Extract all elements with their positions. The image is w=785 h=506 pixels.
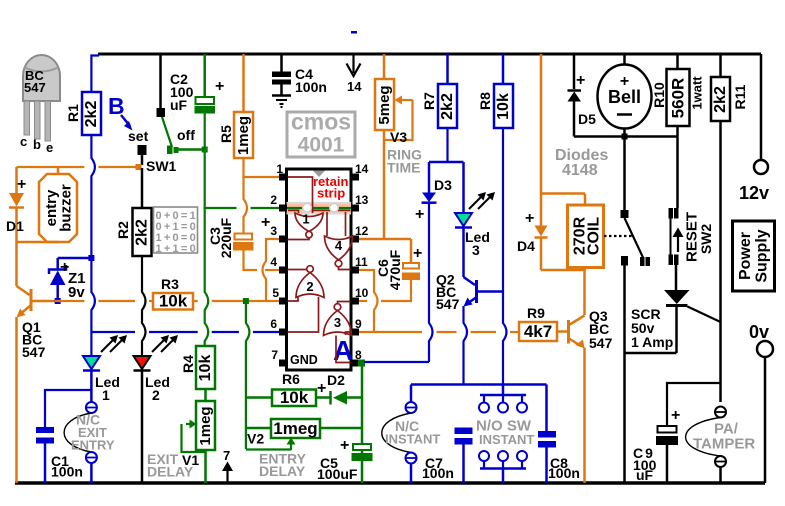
svg-text:547: 547	[24, 80, 46, 95]
pot V2 1meg	[271, 419, 320, 438]
wire C2 to rail	[203, 54, 206, 97]
led Led1	[83, 356, 100, 369]
svg-text:3: 3	[472, 242, 480, 258]
svg-text:R2: R2	[115, 221, 131, 239]
svg-text:Supply: Supply	[754, 229, 771, 282]
switch SW2 RESET	[669, 208, 674, 219]
svg-text:+: +	[415, 206, 424, 223]
svg-text:R11: R11	[732, 84, 748, 109]
svg-text:+: +	[261, 214, 270, 231]
svg-text:R3: R3	[161, 276, 179, 292]
resistor R7 2k2	[446, 54, 449, 84]
wire entry-buzzer net horizontal	[17, 166, 85, 168]
svg-text:6: 6	[270, 317, 277, 331]
transistor Q1 BC547	[30, 289, 33, 311]
wire R1 to rail	[91, 56, 99, 93]
capacitor C4 100n	[280, 54, 283, 72]
wire pin8 to D3	[358, 360, 365, 367]
svg-text:R4: R4	[180, 355, 196, 373]
node 0v terminal	[757, 341, 773, 357]
svg-text:2: 2	[152, 387, 160, 403]
bell	[623, 54, 626, 65]
svg-text:1meg: 1meg	[197, 406, 214, 445]
svg-text:10k: 10k	[280, 388, 309, 407]
resistor R4 10k	[196, 346, 215, 389]
wire pin11 to pin9 (hops pin10 row)	[359, 270, 378, 332]
switch SW1 set contact	[138, 145, 147, 155]
wire bottom 0v rail	[15, 481, 765, 485]
svg-text:547: 547	[22, 344, 46, 360]
svg-text:ENTRY: ENTRY	[71, 438, 115, 453]
wire R3 to pin5 (hops green C2 line)	[193, 300, 198, 302]
node 12v terminal	[760, 54, 763, 160]
svg-text:1watt: 1watt	[690, 76, 705, 110]
svg-text:DELAY: DELAY	[259, 463, 306, 479]
diode D5	[573, 54, 576, 89]
svg-text:547: 547	[589, 335, 613, 351]
svg-text:off: off	[177, 127, 195, 143]
svg-text:+: +	[215, 78, 224, 95]
svg-text:11: 11	[355, 255, 368, 269]
svg-text:e: e	[46, 140, 53, 155]
diode D4	[540, 194, 543, 226]
svg-text:100n: 100n	[422, 465, 454, 481]
wire V3 wiper	[400, 99, 413, 101]
relay fixed contacts	[640, 257, 645, 266]
switch N/O SW instant	[502, 385, 505, 396]
svg-text:1: 1	[302, 212, 309, 227]
svg-text:1: 1	[102, 387, 110, 403]
svg-text:3: 3	[334, 315, 341, 330]
diode D1	[15, 167, 18, 193]
wire gate net down	[719, 322, 722, 402]
gate 4 (NOR)	[325, 236, 353, 260]
wire C2 down to R4/V1	[205, 114, 209, 347]
gate 3 (NOR)	[324, 311, 352, 336]
resistor R11 2k2	[719, 54, 722, 77]
svg-text:R5: R5	[218, 125, 234, 143]
transistor package drawing BC547	[23, 55, 60, 101]
svg-text:470uF: 470uF	[387, 249, 403, 290]
wire pin5 net to R6/V2	[246, 301, 250, 449]
wire D5/Bell/R10 bottom link	[574, 135, 678, 138]
svg-text:TAMPER: TAMPER	[693, 436, 755, 453]
svg-text:Power: Power	[737, 232, 754, 280]
svg-text:3: 3	[270, 224, 277, 238]
resistor R1 2k2	[82, 92, 101, 135]
svg-text:R6: R6	[282, 371, 300, 387]
svg-text:7: 7	[223, 448, 230, 463]
svg-text:4148: 4148	[562, 162, 598, 179]
svg-text:V2: V2	[247, 431, 264, 447]
svg-text:100n: 100n	[295, 79, 327, 95]
resistor R8 10k	[502, 54, 505, 84]
svg-text:10k: 10k	[197, 355, 214, 382]
svg-text:R9: R9	[527, 305, 545, 321]
svg-text:+: +	[413, 245, 422, 262]
svg-text:12v: 12v	[739, 183, 769, 203]
relay contact pole	[621, 210, 629, 218]
svg-text:R7: R7	[421, 92, 437, 110]
svg-text:DELAY: DELAY	[147, 464, 194, 480]
retain strip graphic	[287, 202, 352, 204]
svg-text:buzzer: buzzer	[58, 184, 75, 232]
svg-text:COIL: COIL	[586, 217, 603, 255]
svg-text:4: 4	[270, 255, 277, 269]
svg-text:1 Amp: 1 Amp	[631, 334, 673, 350]
wire Led1 net to pin 6	[91, 331, 135, 333]
svg-text:b: b	[33, 137, 41, 152]
wire C6 to pin10	[381, 280, 411, 301]
pin 14 arrow from rail	[352, 54, 354, 73]
capacitor C6 470uF	[410, 239, 413, 263]
svg-text:100n: 100n	[51, 464, 83, 480]
svg-text:+: +	[17, 176, 26, 193]
svg-text:14: 14	[355, 162, 369, 176]
SCR	[664, 290, 690, 304]
switch SW1 off contact	[167, 146, 173, 155]
capacitor C3 220uF	[235, 234, 253, 240]
transistor Q3 BC547	[567, 320, 570, 344]
wire R7 to D3/Led3 tee	[446, 128, 448, 162]
svg-text:R10: R10	[651, 82, 667, 108]
switch N/C exit entry	[86, 402, 97, 413]
diode D3	[428, 162, 431, 193]
svg-text:9: 9	[355, 317, 362, 331]
cmos 4001 label box	[287, 112, 355, 157]
svg-text:Bell: Bell	[608, 87, 641, 107]
switch SW1 lever	[162, 117, 172, 147]
svg-text:uF: uF	[636, 467, 654, 483]
svg-text:R1: R1	[65, 104, 81, 122]
resistor R5 1meg	[242, 54, 245, 112]
wire buzzer bottom loop	[17, 241, 59, 244]
wire D4 from rail	[540, 54, 543, 194]
svg-text:547: 547	[436, 296, 460, 312]
switch SW1 pole wire	[159, 54, 162, 108]
arrow B to set	[121, 115, 130, 126]
svg-text:+: +	[317, 380, 326, 397]
svg-text:220uF: 220uF	[218, 217, 234, 258]
svg-text:2: 2	[306, 279, 313, 294]
svg-text:1meg: 1meg	[235, 116, 252, 155]
svg-text:2k2: 2k2	[134, 219, 151, 246]
svg-text:5: 5	[272, 286, 279, 300]
node SW1 orange junction	[136, 164, 142, 170]
wire pin2 to pin13 green link	[205, 207, 237, 209]
svg-text:4001: 4001	[298, 134, 345, 157]
svg-text:V3: V3	[390, 129, 407, 145]
svg-text:uF: uF	[170, 97, 188, 113]
svg-text:1: 1	[276, 162, 283, 176]
truth table box	[154, 207, 198, 253]
IC pins left	[279, 174, 287, 181]
wire C3 to pin4 (hops pin3-pin5 tie)	[244, 251, 258, 271]
svg-text:10: 10	[355, 286, 369, 300]
svg-text:c: c	[20, 134, 27, 149]
pot V1 1meg	[204, 389, 207, 401]
wire instant net horizontal	[411, 383, 547, 386]
svg-text:2: 2	[270, 193, 277, 207]
capacitor C9 100uF	[667, 383, 721, 426]
wire pin8 down	[361, 363, 364, 453]
wire V2 wiper	[246, 448, 291, 450]
svg-text:set: set	[128, 128, 149, 144]
wire pin9 to R9 (hops D3, Q2, R8 lines)	[359, 331, 422, 333]
svg-text:+: +	[671, 407, 680, 424]
svg-text:D1: D1	[6, 218, 24, 234]
svg-text:TIME: TIME	[387, 160, 420, 176]
gate 2 (NOR)	[296, 273, 324, 298]
svg-text:+: +	[576, 72, 585, 89]
capacitor C8 100n	[545, 385, 548, 432]
resistor R3 10k	[153, 293, 193, 310]
node green junction on R3 line	[243, 298, 249, 304]
svg-text:100n: 100n	[548, 465, 580, 481]
pin 7 arrow	[226, 466, 228, 483]
svg-text:560R: 560R	[669, 78, 688, 119]
svg-text:D4: D4	[517, 238, 535, 254]
svg-text:10k: 10k	[159, 292, 188, 311]
svg-text:100uF: 100uF	[317, 466, 358, 482]
led Led2	[134, 356, 151, 369]
svg-text:12: 12	[355, 224, 369, 238]
svg-text:INSTANT: INSTANT	[385, 432, 440, 447]
retain strip holes	[303, 204, 312, 213]
svg-text:4k7: 4k7	[524, 322, 552, 341]
wire V2 right to pin8 net	[320, 427, 362, 430]
svg-text:INSTANT: INSTANT	[479, 432, 534, 447]
capacitor C2 100uF	[196, 97, 215, 104]
svg-text:5meg: 5meg	[376, 85, 393, 124]
wire +12v top rail	[98, 53, 761, 56]
wire pin3 to pin5 tie	[263, 239, 280, 301]
node Z1 junction	[88, 255, 94, 261]
wire Q1 base / R3 line	[55, 300, 84, 302]
svg-text:2k2: 2k2	[83, 101, 100, 128]
IC pins right	[351, 174, 359, 181]
svg-text:SW2: SW2	[698, 224, 714, 255]
svg-text:cmos: cmos	[291, 109, 351, 135]
svg-text:0v: 0v	[749, 322, 769, 342]
gate 1 (NOR)	[295, 213, 323, 232]
power supply box	[733, 221, 775, 291]
wire D1/buzzer to Q1 collector	[15, 242, 18, 286]
svg-text:D3: D3	[434, 177, 452, 193]
wire off contact to C2 line	[179, 148, 205, 151]
wire SW2 to SCR	[675, 265, 678, 290]
svg-text:+: +	[340, 437, 349, 454]
svg-text:D2: D2	[327, 372, 345, 388]
diode D2	[316, 396, 331, 399]
capacitor C7 100n	[455, 428, 473, 435]
wire V1 wiper	[186, 423, 193, 425]
svg-text:13: 13	[355, 193, 369, 207]
svg-text:D5: D5	[578, 111, 596, 127]
wire pin12 row	[359, 238, 411, 241]
svg-text:R8: R8	[477, 92, 493, 110]
pot V3 5meg	[383, 54, 386, 79]
entry buzzer	[39, 174, 77, 242]
resistor R6 10k	[272, 390, 316, 407]
wire R5 to pin1	[244, 158, 280, 177]
zener Z1 9v	[58, 257, 92, 260]
led Led3	[462, 162, 465, 213]
svg-text:GND: GND	[290, 353, 318, 367]
relay coil 270R	[584, 194, 587, 206]
resistor R2 2k2	[133, 208, 152, 256]
ground symbol C4	[272, 94, 291, 97]
switch PA/TAMPER	[715, 407, 726, 418]
wire SW1 set to R2	[141, 168, 144, 208]
wire R1 down (hops orange and R3 line)	[91, 135, 95, 258]
resistor R9 4k7	[519, 322, 557, 341]
svg-text:7: 7	[271, 348, 278, 362]
transistor Q2 BC547	[475, 280, 478, 303]
svg-text:strip: strip	[317, 186, 345, 201]
wire relay to 0v rail	[623, 266, 626, 484]
svg-text:1meg: 1meg	[273, 419, 317, 438]
switch N/C instant	[410, 385, 413, 403]
dotted mechanical link	[604, 235, 633, 237]
wire R2 to Led2 (hops R3 and pin6 lines)	[142, 256, 146, 356]
svg-text:SW1: SW1	[146, 158, 177, 174]
svg-text:2k2: 2k2	[439, 93, 456, 120]
wire C1 branch	[45, 390, 91, 427]
svg-text:1 + 1 = 0: 1 + 1 = 0	[156, 243, 196, 255]
svg-text:14: 14	[347, 79, 362, 94]
IC U1 cmos 4001 body	[287, 169, 352, 370]
capacitor C1 100n	[36, 427, 54, 433]
wire internal pin1 and pin13 gate links	[288, 177, 313, 213]
stray blue dash	[351, 31, 357, 34]
svg-text:+: +	[525, 210, 534, 227]
svg-text:2k2: 2k2	[712, 86, 729, 113]
resistor R10 560R 1watt	[676, 54, 679, 69]
svg-text:9v: 9v	[68, 284, 85, 301]
svg-text:10k: 10k	[495, 93, 512, 120]
wire R5/C3 (hops pin2 green line)	[244, 177, 248, 234]
svg-text:4: 4	[335, 238, 343, 253]
